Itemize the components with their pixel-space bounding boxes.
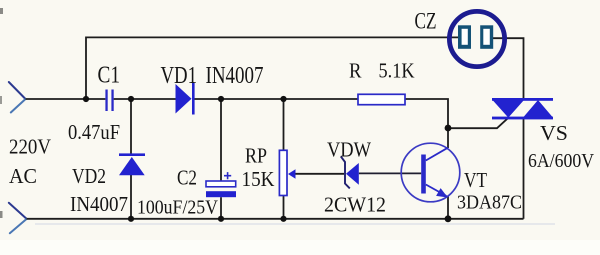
scan artifact left edge bottom xyxy=(0,211,3,218)
wire: VDW to VT base xyxy=(359,172,421,174)
wire: VT emitter lead xyxy=(447,196,449,219)
capacitor C1 xyxy=(105,90,113,112)
wire: C2 branch lower xyxy=(220,197,222,219)
svg-text:VD1: VD1 xyxy=(161,63,198,89)
wire: C1 to VD1 xyxy=(114,98,176,100)
svg-text:15K: 15K xyxy=(242,167,275,191)
diode VD1 xyxy=(176,83,195,115)
svg-text:CZ: CZ xyxy=(415,8,437,33)
svg-text:220V: 220V xyxy=(9,135,51,159)
wire: C2 branch upper xyxy=(220,99,222,181)
junction node G (C2 bottom) xyxy=(218,216,224,222)
wire: VD2 branch lower xyxy=(130,175,132,219)
faint scan artifact line xyxy=(35,223,555,225)
scan artifact left edge middle xyxy=(0,96,2,104)
input terminal top (chevron) xyxy=(9,82,26,113)
junction node D (RP top) xyxy=(280,96,286,102)
svg-text:VS: VS xyxy=(540,121,568,145)
junction node C (VD1 out / C2) xyxy=(218,96,224,102)
svg-text:2CW12: 2CW12 xyxy=(324,193,386,217)
svg-text:VDW: VDW xyxy=(327,138,371,162)
triac VS xyxy=(492,98,553,119)
wire: VD1 to R xyxy=(195,98,359,100)
junction node I (VT emitter bottom) xyxy=(445,215,452,222)
svg-text:100uF/25V: 100uF/25V xyxy=(137,197,218,219)
svg-text:C1: C1 xyxy=(98,63,121,89)
wire: bottom rail xyxy=(27,218,524,220)
svg-text:AC: AC xyxy=(9,164,37,188)
svg-text:RP: RP xyxy=(245,144,267,168)
wire: RP branch upper xyxy=(283,99,285,150)
diode VD2 xyxy=(119,153,145,175)
svg-text:5.1K: 5.1K xyxy=(379,59,415,83)
svg-text:3DA87C: 3DA87C xyxy=(457,192,522,214)
wire: main line input to C1 xyxy=(26,98,106,100)
zener diode VDW xyxy=(341,156,359,188)
junction node A (top rail / C1 left) xyxy=(83,96,89,102)
junction node H (RP bottom) xyxy=(280,216,286,222)
svg-text:IN4007: IN4007 xyxy=(206,63,264,89)
svg-text:R: R xyxy=(349,59,362,83)
junction node B (C1 right / VD2) xyxy=(128,96,134,102)
transistor VT xyxy=(401,143,460,202)
svg-text:IN4007: IN4007 xyxy=(70,192,128,216)
junction node F (VD2 bottom) xyxy=(128,216,134,222)
svg-text:VD2: VD2 xyxy=(72,164,106,188)
wire: top rail up from node A xyxy=(86,37,459,99)
scan artifact left edge top xyxy=(0,8,3,14)
wire: R to corner, down to gate node xyxy=(405,99,448,128)
wire: VT collector lead xyxy=(447,128,449,148)
wire: RP wiper to VDW xyxy=(295,173,344,175)
capacitor C2 xyxy=(206,172,236,197)
svg-text:0.47uF: 0.47uF xyxy=(68,120,120,144)
svg-text:VT: VT xyxy=(464,168,487,192)
input terminal bottom (chevron) xyxy=(9,203,27,233)
wire: triac bottom lead xyxy=(523,119,525,219)
junction node E (gate node) xyxy=(445,125,452,132)
potentiometer RP xyxy=(279,150,295,195)
svg-text:6A/600V: 6A/600V xyxy=(528,150,594,172)
wire: VD2 branch upper xyxy=(130,99,132,154)
svg-text:C2: C2 xyxy=(177,166,197,190)
wire: gate node to triac gate xyxy=(448,118,508,128)
wire: RP branch lower xyxy=(283,196,285,219)
wire: CZ right to triac top xyxy=(493,38,524,98)
resistor R xyxy=(358,94,405,104)
socket CZ xyxy=(449,11,504,66)
